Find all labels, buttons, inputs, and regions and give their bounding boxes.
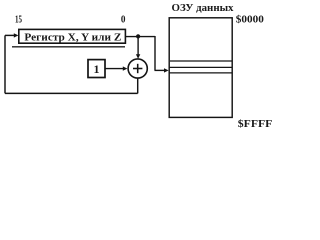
svg-text:1: 1 — [94, 62, 100, 76]
svg-text:ОЗУ данных: ОЗУ данных — [172, 3, 235, 14]
svg-text:0: 0 — [121, 13, 126, 25]
svg-text:$0000: $0000 — [236, 15, 264, 26]
background paper — [0, 0, 275, 131]
wire: feedback left up — [4, 35, 6, 93]
wire: register output right — [125, 36, 155, 38]
wire: address line down — [154, 36, 156, 70]
constant box 1 — [88, 60, 105, 78]
wire: address arrow into RAM — [155, 69, 165, 71]
svg-text:Регистр X, Y или Z: Регистр X, Y или Z — [24, 32, 121, 43]
scan shadow line under register box — [12, 46, 125, 48]
wire: feedback bottom — [5, 92, 138, 94]
adder circle — [128, 59, 147, 78]
register box (Регистр X, Y или Z) — [19, 29, 126, 43]
RAM selected cell bottom line — [169, 72, 232, 74]
RAM row line upper — [170, 60, 232, 62]
node junction dot — [136, 34, 140, 38]
wire: adder output down — [137, 78, 139, 93]
wire: feedback arrow into register — [5, 34, 14, 36]
RAM box — [169, 18, 232, 118]
wire: 1 to adder — [105, 68, 123, 70]
wire: junction down to adder — [137, 37, 139, 55]
svg-text:15: 15 — [15, 14, 22, 26]
RAM selected cell top line — [169, 66, 232, 68]
svg-text:$FFFF: $FFFF — [238, 119, 272, 130]
